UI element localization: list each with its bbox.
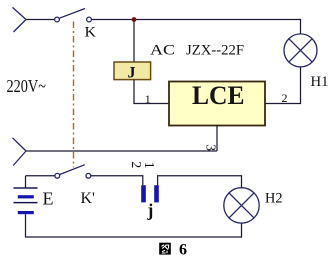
relay coil J box [114, 62, 151, 80]
wire lamp H1 to LCE pin 2 [265, 67, 301, 104]
relay contact J plates [141, 185, 146, 202]
caption: hanzi TU (drawn) [159, 243, 171, 255]
svg-text:3: 3 [204, 144, 219, 151]
svg-text:2: 2 [282, 91, 288, 105]
lamp H1 [284, 34, 317, 67]
switch K [55, 9, 92, 22]
svg-text:j: j [147, 200, 154, 220]
svg-text:220V~: 220V~ [7, 76, 47, 96]
svg-text:1: 1 [141, 162, 156, 169]
svg-text:H1: H1 [311, 74, 329, 90]
wire relay contact to lamp H2 [158, 176, 242, 188]
dashed separation line [73, 22, 75, 168]
LCE box [169, 82, 265, 126]
battery E top lead [25, 176, 27, 188]
AC plug prong (lower fork) [13, 138, 27, 166]
switch K' [55, 165, 91, 179]
junction dot [132, 17, 137, 22]
svg-text:2: 2 [128, 161, 143, 168]
wire battery to switch K' [26, 175, 55, 177]
wire switch K to top-right corner [91, 20, 300, 35]
wire LCE pin 3 down [216, 126, 218, 152]
wire coil J to LCE pin 1 [134, 80, 169, 104]
svg-text:J: J [128, 65, 136, 82]
wire lamp H2 bottom to battery [26, 214, 242, 237]
svg-text:E: E [43, 189, 54, 209]
wire fork to switch K [26, 19, 55, 21]
svg-text:6: 6 [179, 242, 187, 257]
svg-text:LCE: LCE [192, 81, 245, 110]
svg-text:H2: H2 [265, 191, 283, 207]
battery E [14, 188, 38, 214]
svg-text:K': K' [81, 190, 96, 207]
svg-text:1: 1 [145, 92, 151, 106]
AC plug prong (top fork) [13, 7, 27, 32]
wire switch K' to relay contact J [91, 176, 143, 185]
wire pin 3 to lower fork [26, 150, 217, 152]
wire junction down to relay coil J [133, 20, 135, 63]
svg-text:AC: AC [150, 43, 175, 59]
svg-text:JZX--22F: JZX--22F [186, 43, 244, 59]
svg-text:K: K [85, 25, 97, 41]
lamp H2 [224, 188, 259, 223]
